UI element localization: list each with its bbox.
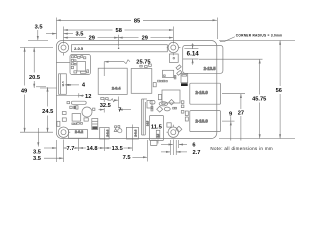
dimension 20.5	[33, 48, 35, 89]
svg-text:7.5: 7.5	[123, 155, 131, 161]
tiny parts below 25.75	[140, 65, 142, 67]
left extension lines	[20, 47, 53, 49]
PoE header J14	[169, 54, 178, 62]
dimension 27	[240, 94, 242, 141]
dimension 11.5 vertical	[157, 140, 159, 144]
mounting hole H3 bottom-left	[58, 127, 68, 137]
USB stack J9	[190, 83, 221, 104]
dimension 6.14	[184, 43, 198, 64]
svg-text:2-0.4: 2-0.4	[105, 129, 109, 136]
left edge small part	[57, 121, 60, 126]
svg-text:6: 6	[192, 142, 195, 148]
dimension 13.5	[104, 147, 132, 149]
dimension 32.5 leader	[108, 97, 119, 108]
dimension 3.5 bottom row1	[44, 147, 57, 149]
svg-text:14.5: 14.5	[61, 81, 65, 87]
svg-text:12: 12	[85, 94, 91, 100]
RAM chip U5	[98, 68, 127, 94]
svg-text:14.8: 14.8	[86, 146, 97, 152]
dimension 6	[161, 144, 187, 146]
tiny marks above power	[72, 123, 74, 125]
bottom extension lines	[56, 140, 58, 162]
extension lines top	[56, 18, 58, 40]
svg-text:14.5: 14.5	[146, 120, 150, 126]
wireless module	[56, 53, 90, 75]
svg-text:2-0.4: 2-0.4	[134, 129, 138, 136]
dimension 45.75	[259, 59, 261, 138]
dimension 7	[99, 99, 132, 113]
right extension lines	[219, 40, 295, 42]
dimension 9	[230, 116, 232, 140]
connector block top-center-right	[158, 70, 176, 82]
SoC U1	[131, 69, 152, 94]
mounting hole H1 top-left	[58, 42, 68, 52]
dimension 49	[24, 48, 26, 133]
hole-bottom arrow	[37, 128, 39, 147]
dark component bar	[181, 74, 188, 87]
svg-text:27: 27	[238, 111, 244, 117]
Ethernet jack J2	[183, 45, 223, 73]
svg-text:29: 29	[89, 36, 95, 42]
dimension 3.5 top (edge to hole)	[46, 33, 73, 35]
dimension 7.7	[64, 147, 79, 149]
extension lines bottom right	[169, 140, 171, 155]
svg-text:20.5: 20.5	[29, 75, 40, 81]
svg-text:9: 9	[229, 111, 232, 117]
svg-text:24.5: 24.5	[42, 109, 53, 115]
dimension 56	[279, 41, 281, 139]
svg-text:2-0.4: 2-0.4	[112, 87, 122, 91]
svg-text:2-16.0: 2-16.0	[195, 118, 208, 123]
small component right of SoC	[153, 83, 156, 87]
dimension 29 + 29	[64, 37, 174, 39]
dimension 2.7	[161, 151, 187, 153]
USB/LAN controller U3	[162, 90, 180, 103]
mounting hole H2 top-right	[168, 42, 178, 52]
dimension 12	[56, 93, 84, 97]
CSI camera connector channel	[142, 99, 152, 135]
svg-text:2-0.5: 2-0.5	[74, 46, 84, 51]
svg-text:2-13.5: 2-13.5	[204, 66, 217, 71]
svg-text:25.75: 25.75	[136, 60, 150, 66]
small component below SoC	[158, 94, 161, 99]
svg-text:CORNER RADIUS = 3.0mm: CORNER RADIUS = 3.0mm	[236, 34, 283, 38]
svg-text:Note: all dimensions in mm: Note: all dimensions in mm	[210, 146, 273, 151]
dimension 3.5 left vertical	[28, 30, 48, 40]
dimension 85	[56, 19, 216, 21]
small parts right of CSI	[150, 100, 182, 133]
dimension 7.5	[132, 156, 147, 158]
svg-text:2.7: 2.7	[193, 150, 201, 156]
svg-text:3.5: 3.5	[76, 32, 84, 38]
dimension 14.8	[79, 147, 105, 149]
dimension 58	[64, 29, 174, 31]
PMIC + caps cluster bottom-left	[62, 101, 98, 129]
svg-text:56: 56	[276, 88, 282, 94]
svg-text:7: 7	[118, 108, 121, 114]
svg-text:3.5: 3.5	[33, 150, 41, 156]
DSI display connector J3	[59, 74, 67, 95]
micro HDMI 1	[126, 127, 138, 139]
svg-text:3.5: 3.5	[35, 25, 43, 31]
GPIO header J8	[72, 45, 168, 52]
svg-text:6.14: 6.14	[187, 51, 200, 58]
audio jack	[150, 116, 164, 141]
svg-text:3.5: 3.5	[33, 156, 41, 162]
svg-text:85: 85	[134, 18, 140, 24]
mounting hole H4 bottom-right	[168, 127, 178, 137]
svg-text:7.7: 7.7	[67, 146, 75, 152]
svg-text:32.5: 32.5	[100, 103, 111, 109]
power input connector	[69, 130, 88, 139]
svg-text:58: 58	[116, 28, 122, 34]
svg-text:13.5: 13.5	[112, 146, 123, 152]
svg-text:11.5: 11.5	[151, 125, 163, 131]
dimension 24.5	[47, 87, 49, 132]
board outline	[56, 41, 216, 139]
svg-text:2-16.0: 2-16.0	[195, 90, 208, 95]
svg-text:4.8: 4.8	[156, 133, 160, 137]
dimension 3.5 bottom row2	[44, 157, 64, 159]
micro HDMI 0	[100, 127, 110, 139]
hole crosshair ticks	[69, 48, 181, 133]
LED / button cluster	[114, 126, 122, 133]
svg-text:2-0.2: 2-0.2	[75, 130, 83, 134]
svg-text:49: 49	[21, 89, 27, 95]
svg-text:4: 4	[82, 83, 86, 89]
audio jack barrel below edge	[150, 140, 157, 145]
svg-text:29: 29	[142, 36, 148, 42]
svg-text:45.75: 45.75	[252, 97, 266, 103]
dimension 25.75 leader	[104, 60, 130, 76]
dimension 4	[65, 84, 79, 86]
tilted caps near ethernet	[176, 65, 182, 75]
corner radius leader	[220, 37, 235, 42]
USB stack J10	[190, 111, 221, 132]
small parts left of USB stacks	[181, 101, 188, 121]
